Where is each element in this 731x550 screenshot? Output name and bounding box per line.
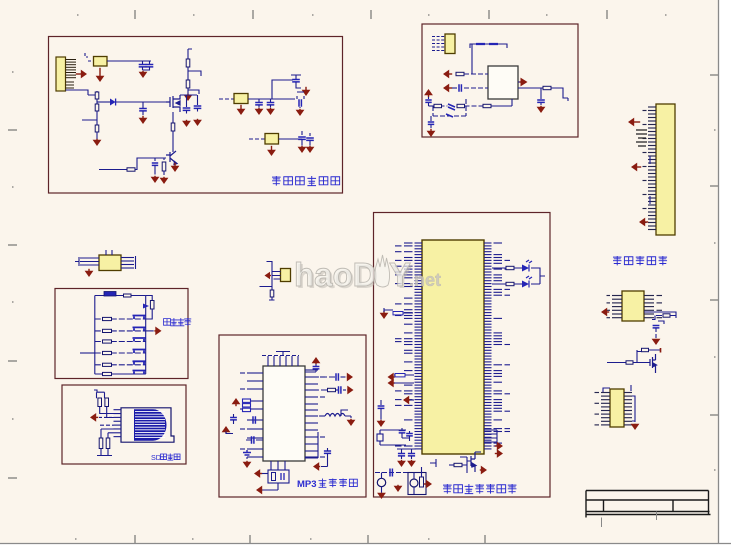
crystal Y1 xyxy=(268,470,289,483)
ground arrow MP2 xyxy=(256,486,262,495)
ground G30 xyxy=(377,493,386,499)
signal arrow MP1 xyxy=(254,469,262,478)
wire xyxy=(277,98,290,100)
wire xyxy=(279,138,303,140)
wire xyxy=(428,103,430,106)
jack J4 pins xyxy=(273,272,281,280)
wire xyxy=(552,88,569,101)
wire xyxy=(269,297,275,300)
power flag arrow VC xyxy=(312,357,321,364)
capacitor C29 xyxy=(339,386,341,394)
wire xyxy=(475,451,481,453)
wire xyxy=(632,396,635,422)
wire xyxy=(85,53,93,61)
ground G20 xyxy=(427,129,436,137)
ground G7 xyxy=(193,119,202,126)
capacitor C2 xyxy=(146,65,154,67)
wire xyxy=(430,116,432,121)
wire xyxy=(414,467,422,494)
signal arrow MC2 xyxy=(388,379,395,388)
resistor R20 xyxy=(103,329,112,332)
wire xyxy=(101,429,108,438)
capacitor C26 xyxy=(281,473,284,480)
connector J2 pins xyxy=(432,37,445,51)
wire xyxy=(99,416,114,418)
wire bracket xyxy=(484,430,497,446)
ground G17 xyxy=(306,146,315,153)
keypad circuit box 按键电路 xyxy=(55,289,188,379)
input arrow IN2 xyxy=(443,84,452,93)
driver IC U8 pins xyxy=(595,393,633,425)
wire xyxy=(305,389,327,391)
capacitor C24 xyxy=(252,436,254,444)
capacitor C14 xyxy=(537,100,545,102)
wire xyxy=(96,99,98,104)
signal arrow DSP1 xyxy=(628,118,640,127)
key switch S1 xyxy=(133,316,146,320)
wire key row 1 xyxy=(95,318,146,320)
wire key row 6 xyxy=(95,373,146,375)
ground G13 xyxy=(255,108,264,115)
wire xyxy=(155,166,164,176)
wire xyxy=(188,67,201,80)
wire xyxy=(97,101,110,103)
wire xyxy=(143,67,150,70)
signal arrow DSP3 xyxy=(639,218,648,227)
wire xyxy=(146,296,153,301)
capacitor C27 xyxy=(313,367,320,369)
regulator U5 pins xyxy=(80,250,136,269)
resistor R19 xyxy=(103,317,112,320)
wire xyxy=(652,316,676,325)
label 显示屏电路 xyxy=(613,256,667,265)
wire xyxy=(410,399,414,401)
capacitor C3 xyxy=(139,109,147,111)
memory IC U7 xyxy=(622,291,644,321)
capacitor C7 xyxy=(292,80,300,82)
capacitor C34 xyxy=(398,454,405,456)
MCU control circuit box 单片机控制电路 xyxy=(374,213,551,498)
signal arrow MC7 xyxy=(480,466,487,475)
resistor R11 xyxy=(434,104,442,107)
resistor R17 xyxy=(124,294,132,297)
SD connector outline xyxy=(121,408,174,442)
resistor R3 xyxy=(95,92,99,99)
power flag arrow to VCC xyxy=(76,70,87,79)
crystal Y2 xyxy=(377,434,383,441)
wire xyxy=(188,88,199,94)
signal arrow MC1 xyxy=(388,373,395,382)
wire xyxy=(97,449,112,456)
MCU IC U6 xyxy=(422,240,484,454)
wire xyxy=(644,312,676,318)
wire xyxy=(146,309,153,319)
resistor R16 xyxy=(626,361,633,364)
wire xyxy=(116,101,166,103)
ground G18 xyxy=(267,146,276,156)
battery BT2 xyxy=(410,479,418,487)
ground G15 xyxy=(296,109,305,116)
wire xyxy=(655,328,657,338)
output arrow MC6 xyxy=(495,449,503,458)
watermark haoDIY.net xyxy=(294,255,441,295)
wire key row 2 xyxy=(95,330,146,332)
power flag arrow VB xyxy=(222,426,231,433)
ground G26 xyxy=(380,311,389,319)
regulator U3 xyxy=(265,134,279,145)
wire xyxy=(380,430,396,445)
wire xyxy=(430,459,436,467)
SD card circuit box SD卡电路 xyxy=(62,385,186,464)
output arrow MC5 xyxy=(495,442,503,451)
wire xyxy=(315,364,317,366)
wire xyxy=(321,458,328,467)
wire xyxy=(452,87,457,89)
MCU IC U6 pins xyxy=(395,243,510,449)
label SD卡电路 glyphs xyxy=(161,454,181,461)
wire xyxy=(226,414,234,434)
ground G24 xyxy=(243,461,252,468)
wire xyxy=(341,376,346,378)
capacitor C9 xyxy=(267,103,275,105)
SD connector body xyxy=(134,409,167,440)
wire xyxy=(305,369,316,372)
resistor R24 xyxy=(103,372,112,375)
wire key bus xyxy=(95,296,146,375)
capacitor C15 xyxy=(425,100,431,102)
wire xyxy=(297,92,304,99)
capacitor C28 xyxy=(336,373,338,381)
label 单片机控制电路 xyxy=(443,484,516,494)
SD connector pins xyxy=(114,410,122,437)
label MP3解码电路 glyphs xyxy=(319,479,358,488)
wire xyxy=(262,473,268,475)
wire xyxy=(249,138,265,140)
crystal Y1 inner xyxy=(272,473,276,481)
resistor R26 xyxy=(105,398,109,407)
wire xyxy=(345,416,351,418)
wire xyxy=(531,268,540,284)
ground G28 xyxy=(397,460,406,467)
decoder IC U9 pins xyxy=(240,352,325,458)
ground G14 xyxy=(266,108,275,115)
relay K1 xyxy=(408,473,426,495)
ground G27 xyxy=(377,420,386,427)
wire xyxy=(464,87,488,89)
LED D3 xyxy=(522,260,532,272)
key switch S3 xyxy=(133,338,146,342)
resistor R6 xyxy=(171,123,175,131)
key switch S4 xyxy=(133,350,146,354)
ground G6 xyxy=(182,120,191,127)
inductor L1 xyxy=(325,414,345,417)
wire xyxy=(381,473,383,493)
resistor R18 xyxy=(150,301,154,310)
wire xyxy=(518,81,521,83)
wire xyxy=(247,419,263,421)
MP3 decoder circuit box MP3解码电路 xyxy=(219,335,366,497)
ground G23 xyxy=(85,269,94,277)
capacitor C31 xyxy=(378,406,385,408)
ground G16 xyxy=(298,146,307,153)
ground arrow MP3g xyxy=(313,462,320,471)
wire xyxy=(142,111,144,115)
resistor R12 xyxy=(457,104,465,107)
wire xyxy=(267,262,273,266)
capacitor C32 xyxy=(399,431,406,433)
wire xyxy=(460,457,471,473)
label 按键电路 xyxy=(164,318,192,326)
wire xyxy=(384,308,413,313)
wire key row 5 xyxy=(95,364,146,366)
ground G3 xyxy=(184,94,193,101)
wire xyxy=(380,400,382,405)
wire xyxy=(531,276,545,284)
power flag arrow V+ xyxy=(424,89,433,97)
op-amp U4 xyxy=(488,66,518,99)
output arrow L xyxy=(347,373,353,382)
resistor R13 xyxy=(483,104,491,107)
transistor Q2 xyxy=(166,151,177,165)
wire xyxy=(188,49,192,59)
wire xyxy=(259,105,271,108)
svg-text:haoD: haoD xyxy=(294,256,377,293)
wire xyxy=(96,132,98,139)
ground G21 xyxy=(652,339,661,345)
capacitor C6 xyxy=(152,163,158,165)
input arrow IN1 xyxy=(443,70,452,79)
resistor R10 xyxy=(543,86,551,89)
diode D2 xyxy=(143,304,149,309)
output arrow OUT1 xyxy=(520,78,528,87)
jack J4 xyxy=(281,269,291,282)
capacitor C18 xyxy=(428,122,434,124)
wire xyxy=(465,105,484,107)
ground G29 xyxy=(407,460,416,467)
ground G9 xyxy=(151,176,160,183)
wire xyxy=(305,432,318,458)
wire xyxy=(394,374,414,376)
resistor R2 xyxy=(186,80,190,88)
resistor R34 xyxy=(506,282,514,285)
resistor R32 xyxy=(420,477,424,487)
resistor pack RP1 xyxy=(243,399,251,412)
signal arrow M1 xyxy=(601,308,609,317)
signal arrow DSP2 xyxy=(631,163,641,172)
wire xyxy=(518,87,543,89)
wire xyxy=(540,103,542,105)
wire xyxy=(259,99,271,102)
wire xyxy=(272,80,293,99)
capacitor C13 xyxy=(459,84,461,92)
wire xyxy=(375,472,408,474)
ground G31 xyxy=(394,485,403,492)
connector J2 xyxy=(445,34,455,54)
transistor Q1 xyxy=(166,95,180,112)
wire key row 4 xyxy=(95,352,146,354)
ground G11 xyxy=(302,87,311,96)
capacitor C17 xyxy=(446,114,453,117)
resistor R4 xyxy=(95,104,99,111)
wire xyxy=(343,389,346,391)
LED D4 xyxy=(522,276,532,288)
wire xyxy=(99,169,127,171)
wire xyxy=(442,105,448,107)
wire xyxy=(305,415,325,417)
wire xyxy=(394,382,414,384)
resistor R35 xyxy=(454,463,462,466)
wire xyxy=(607,362,626,364)
svg-text:MP3: MP3 xyxy=(297,479,317,490)
signal arrow SD1 xyxy=(90,413,98,422)
resistor R15 xyxy=(642,348,649,351)
resistor R31 xyxy=(395,374,405,377)
decoder IC U9 xyxy=(263,366,305,461)
title block xyxy=(586,491,711,518)
wire xyxy=(302,140,310,146)
wire xyxy=(649,348,661,353)
wire xyxy=(291,75,301,79)
label 开机电源电路 xyxy=(272,176,340,186)
wire xyxy=(649,156,651,204)
resistor R28 xyxy=(106,438,110,449)
ground G12 xyxy=(237,105,246,115)
capacitor C23 xyxy=(253,416,255,424)
connector J1 pins xyxy=(66,60,77,89)
capacitor C20 xyxy=(653,326,660,328)
ground G25 xyxy=(347,419,356,426)
wire key row 3 xyxy=(95,341,146,343)
resistor R21 xyxy=(103,340,112,343)
wire xyxy=(299,107,301,108)
ground G10 xyxy=(160,177,169,184)
wire xyxy=(101,429,114,433)
capacitor C36 xyxy=(390,469,392,477)
display connector J3 xyxy=(656,104,675,235)
wire xyxy=(492,99,513,106)
wire xyxy=(100,424,114,426)
wire xyxy=(66,90,89,95)
capacitor C10 xyxy=(299,99,301,107)
wire xyxy=(155,158,164,161)
capacitor C8 xyxy=(255,103,263,105)
capacitor C35 xyxy=(408,454,415,456)
connector J1 xyxy=(56,57,66,91)
key switch S5 xyxy=(133,361,146,365)
capacitor C4 xyxy=(183,108,191,110)
capacitor C12 xyxy=(306,138,314,140)
ground G1 xyxy=(96,68,105,82)
output arrow KEY xyxy=(154,327,161,336)
wire xyxy=(172,131,174,152)
capacitor C25 xyxy=(243,450,251,455)
wire xyxy=(327,448,329,458)
wire xyxy=(75,257,79,266)
wire xyxy=(305,376,335,378)
key switch S2 xyxy=(133,327,146,331)
wire xyxy=(428,97,430,99)
resistor R33 xyxy=(506,266,514,269)
resistor R8 xyxy=(162,162,166,171)
ground G2 xyxy=(139,71,148,78)
power stub xyxy=(660,348,662,353)
SD connector contacts xyxy=(135,412,165,438)
regulator U5 xyxy=(99,255,121,271)
key switch S6 xyxy=(133,371,146,375)
resistor R1 xyxy=(186,59,190,67)
capacitor C5 xyxy=(194,106,202,108)
signal arrow MC3 xyxy=(403,396,410,405)
wire xyxy=(449,464,454,466)
resistor R5 xyxy=(95,125,99,132)
wire xyxy=(271,461,285,470)
wire xyxy=(336,389,339,391)
capacitor C1 xyxy=(139,65,147,67)
wire xyxy=(187,109,198,114)
capacitor C33 xyxy=(406,434,413,436)
wire xyxy=(470,44,507,74)
wire xyxy=(94,390,105,398)
wire xyxy=(219,98,234,100)
wire xyxy=(380,409,382,420)
wire xyxy=(88,91,97,95)
power-on supply circuit box 开机电源电路 xyxy=(49,37,343,194)
wire xyxy=(107,60,140,62)
capacitor stack C19 xyxy=(636,130,647,146)
battery BT1 xyxy=(377,478,385,486)
resistor R9 xyxy=(456,72,464,75)
wire xyxy=(429,105,435,107)
ground G4 xyxy=(93,139,102,146)
wire xyxy=(633,350,650,363)
svg-text:Y: Y xyxy=(389,256,411,293)
resistor R30 xyxy=(393,312,403,315)
wire xyxy=(262,483,278,490)
wire xyxy=(248,98,295,100)
output arrow R xyxy=(347,386,353,395)
ferrite bead FB1 xyxy=(476,43,498,45)
driver IC U8 xyxy=(610,389,624,427)
capacitor C16 xyxy=(448,104,455,110)
ground G22 xyxy=(631,424,640,430)
wire xyxy=(246,439,263,441)
resistor R14 xyxy=(663,314,670,317)
wire xyxy=(341,410,348,416)
wire xyxy=(260,266,273,291)
wire xyxy=(140,61,151,64)
wire xyxy=(492,283,522,285)
wire xyxy=(433,99,466,116)
wire xyxy=(603,385,631,392)
wire xyxy=(82,111,97,125)
wire xyxy=(80,352,95,354)
diode D1 xyxy=(110,99,116,106)
wire xyxy=(492,267,522,269)
wire xyxy=(246,457,248,459)
wire xyxy=(146,330,154,332)
wire xyxy=(430,125,432,128)
resistor R25 xyxy=(98,398,102,407)
resistor R22 xyxy=(103,351,112,354)
resistor R7 xyxy=(127,168,135,171)
resistor R23 xyxy=(103,363,112,366)
wire xyxy=(302,131,310,136)
power flag arrow VA xyxy=(232,398,241,406)
transistor Q4 xyxy=(471,452,476,472)
ground G19 xyxy=(537,106,546,113)
signal arrow JK xyxy=(265,272,272,280)
capacitor C11 xyxy=(298,137,306,139)
